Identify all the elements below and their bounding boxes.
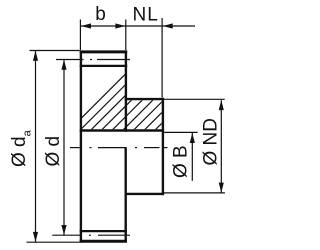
gear outline: left face (80, 50, 82, 242)
extension line x=126 (b right / NL left) (125, 20, 127, 51)
arrowhead da up (33, 51, 38, 61)
svg-text:NL: NL (133, 4, 159, 25)
arrowhead b right / NL left (115, 23, 125, 28)
arrowhead NL right (163, 23, 173, 28)
arrowhead d up (61, 60, 66, 70)
gear outline: bottom tip edge (80, 240, 127, 243)
top dimension line for b and NL (81, 25, 195, 27)
gear outline: bottom root line (80, 230, 127, 232)
svg-text:Ø ND: Ø ND (201, 118, 222, 166)
d dimension line (63, 60, 65, 235)
da dimension line (35, 51, 37, 242)
extension line x=80 (b left) (79, 20, 81, 51)
B dimension line (191, 133, 193, 181)
ND dimension line (220, 100, 222, 192)
extension line x=162 (NL right) (161, 18, 163, 98)
pitch line bottom (dash-dot) + d extension (52, 234, 130, 236)
hub right face (162, 98, 164, 195)
svg-text:Ø B: Ø B (171, 145, 192, 178)
hub top edge (125, 98, 164, 100)
gear outline: top tip edge (80, 50, 128, 53)
hub bottom edge (125, 193, 165, 195)
da bottom extension line (27, 241, 80, 243)
svg-text:b: b (95, 4, 106, 25)
hub top extension line for ND (164, 98, 225, 100)
gear outline: top root line (80, 65, 128, 67)
hub bottom extension line for ND (164, 192, 225, 194)
da top extension line (30, 50, 80, 52)
svg-text:Ø d: Ø d (43, 136, 64, 167)
arrowhead ND down (219, 183, 224, 193)
arrowhead B up (190, 133, 195, 143)
pitch line top (dash-dot) + d extension (56, 59, 130, 61)
gear outline: right face upper (tip to bore) (125, 50, 127, 131)
axis centerline (dash-dot) (70, 147, 168, 149)
arrowhead b left (81, 23, 91, 28)
bore top edge (80, 129, 164, 132)
arrowhead d down (61, 225, 66, 235)
arrowhead da down (33, 232, 38, 242)
arrowhead ND up (219, 100, 224, 110)
gear outline: right face lower (124, 147, 126, 242)
bore extension line for B (164, 131, 198, 133)
